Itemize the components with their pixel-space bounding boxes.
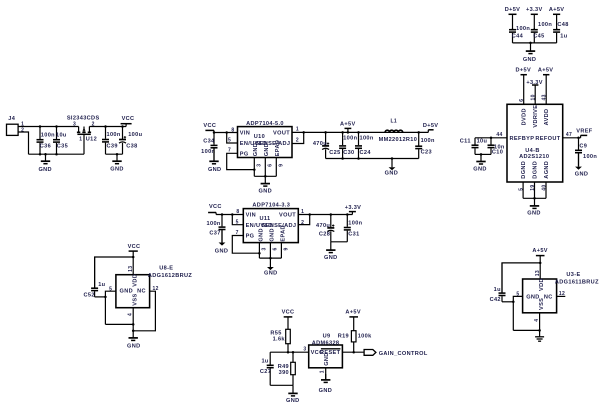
svg-text:DGND: DGND xyxy=(521,161,527,179)
transistor U12 SI2343CDS P-MOSFET xyxy=(77,127,91,155)
svg-text:GAIN_CONTROL: GAIN_CONTROL xyxy=(379,351,428,357)
svg-text:C44: C44 xyxy=(512,33,524,39)
svg-text:ADG1612BRUZ: ADG1612BRUZ xyxy=(148,273,192,279)
svg-text:2: 2 xyxy=(296,137,299,143)
svg-text:8: 8 xyxy=(231,127,234,133)
svg-text:A+5V: A+5V xyxy=(340,122,356,128)
svg-text:GND: GND xyxy=(38,167,51,173)
svg-text:AD2S1210: AD2S1210 xyxy=(519,154,549,160)
svg-text:R19: R19 xyxy=(338,334,349,340)
svg-text:C30: C30 xyxy=(343,150,354,156)
svg-text:100n: 100n xyxy=(41,133,55,139)
svg-text:C38: C38 xyxy=(126,144,137,150)
svg-text:ADM6328: ADM6328 xyxy=(312,341,340,347)
svg-text:VIN: VIN xyxy=(246,212,256,218)
svg-text:C34: C34 xyxy=(203,139,215,145)
resistor R55 1.6k xyxy=(286,329,291,343)
svg-text:100n: 100n xyxy=(583,154,597,160)
capacitor C11 xyxy=(474,138,476,145)
wire C42 to VSS net xyxy=(502,301,513,303)
wire branch to C42 xyxy=(502,263,540,293)
power flag VCC xyxy=(129,250,138,252)
ground xyxy=(530,43,532,51)
svg-text:C11: C11 xyxy=(460,139,471,145)
wire bottom gnd rail xyxy=(513,329,539,331)
svg-text:GND: GND xyxy=(385,171,398,177)
analog switch U8-E ADG1612BRUZ xyxy=(116,275,150,308)
ground xyxy=(578,153,580,166)
svg-text:10u: 10u xyxy=(56,133,67,139)
svg-text:6: 6 xyxy=(273,247,279,250)
svg-text:390: 390 xyxy=(279,370,289,376)
svg-text:GND: GND xyxy=(324,255,337,261)
svg-text:100n: 100n xyxy=(516,26,530,32)
capacitor C25 xyxy=(325,132,327,145)
svg-text:AGND: AGND xyxy=(544,161,550,179)
svg-text:AVDD: AVDD xyxy=(544,109,550,126)
svg-text:1: 1 xyxy=(320,370,326,373)
ground xyxy=(264,176,266,183)
svg-text:1: 1 xyxy=(296,126,299,132)
wire REFOUT to VREF xyxy=(563,137,581,139)
wire GND pin stubs xyxy=(253,158,255,177)
ground xyxy=(480,154,482,161)
power flag +3.3V xyxy=(532,84,538,86)
capacitor C39 xyxy=(105,127,107,139)
svg-text:40: 40 xyxy=(541,185,547,191)
capacitor C28 xyxy=(330,215,332,228)
svg-text:GND: GND xyxy=(264,270,277,276)
capacitor C9 xyxy=(578,138,580,150)
ground xyxy=(391,159,393,168)
svg-text:DGND: DGND xyxy=(533,161,539,179)
ground xyxy=(325,374,327,380)
wire SENSE/ADJ to VOUT xyxy=(298,215,309,225)
svg-text:SI2343CDS: SI2343CDS xyxy=(67,115,100,121)
wire NC pin 12 loop xyxy=(133,291,155,331)
svg-text:C25: C25 xyxy=(329,150,340,156)
regulator U11 ADP7104-3.3 xyxy=(243,209,298,243)
svg-text:GND: GND xyxy=(526,294,539,300)
wire cap gnd rail xyxy=(475,153,491,155)
svg-text:A+5V: A+5V xyxy=(345,310,361,316)
capacitor C45 xyxy=(533,28,535,29)
power flag D+5V xyxy=(509,13,517,15)
svg-text:ADP7104-3.3: ADP7104-3.3 xyxy=(252,203,290,209)
capacitor C34 xyxy=(213,133,215,145)
svg-text:470u: 470u xyxy=(316,223,330,229)
svg-text:U8-E: U8-E xyxy=(159,266,173,272)
svg-text:470u: 470u xyxy=(313,141,327,147)
svg-text:GND: GND xyxy=(215,249,228,255)
wire GND pin xyxy=(325,368,327,380)
wire GND pin 5 xyxy=(105,291,116,324)
svg-text:GND: GND xyxy=(523,57,536,63)
svg-text:GND: GND xyxy=(575,172,588,178)
wire VSS to ground xyxy=(132,308,134,338)
svg-text:C31: C31 xyxy=(348,231,359,237)
inductor L1 MM22012R10 xyxy=(385,130,403,132)
svg-text:GND: GND xyxy=(127,344,140,350)
power flag D+5V xyxy=(521,74,527,76)
svg-text:EPAD: EPAD xyxy=(280,225,286,242)
svg-text:3: 3 xyxy=(262,247,268,250)
svg-text:REFBYP: REFBYP xyxy=(510,136,535,142)
power flag VCC xyxy=(284,316,293,318)
svg-text:VIN: VIN xyxy=(240,130,250,136)
svg-text:VDRIVE: VDRIVE xyxy=(533,105,539,128)
wire branch to C52 xyxy=(95,257,134,288)
resistor R49 390 xyxy=(291,362,296,374)
svg-text:EPAD: EPAD xyxy=(275,140,281,157)
svg-text:VOUT: VOUT xyxy=(279,212,296,218)
svg-text:C37: C37 xyxy=(209,231,220,237)
svg-text:+3.3V: +3.3V xyxy=(345,205,362,211)
ground xyxy=(534,198,536,206)
svg-text:1u: 1u xyxy=(494,287,501,293)
capacitor C48 xyxy=(556,28,558,29)
analog switch U3-E ADG1611BRUZ xyxy=(523,279,557,313)
wire RESET to flag xyxy=(342,351,364,353)
svg-text:13: 13 xyxy=(535,270,541,276)
power flag A+5V xyxy=(553,13,560,15)
power flag VREF xyxy=(581,134,588,136)
wire J4 pin1 to Q drain xyxy=(18,126,79,128)
svg-text:VCC: VCC xyxy=(128,244,141,250)
svg-text:5: 5 xyxy=(109,287,112,293)
svg-text:3: 3 xyxy=(257,164,263,167)
svg-text:3: 3 xyxy=(303,347,306,353)
wire bottom rail xyxy=(270,384,293,386)
svg-text:VSS: VSS xyxy=(132,293,138,305)
svg-text:C35: C35 xyxy=(57,144,68,150)
svg-text:13: 13 xyxy=(128,266,134,272)
svg-text:GND: GND xyxy=(527,210,540,216)
svg-text:10: 10 xyxy=(531,94,537,100)
svg-text:1.6k: 1.6k xyxy=(273,337,286,343)
svg-text:1u: 1u xyxy=(98,282,105,288)
svg-text:1: 1 xyxy=(79,137,82,143)
power flag VCC xyxy=(121,123,132,125)
svg-text:C24: C24 xyxy=(360,150,372,156)
wire rail xyxy=(513,42,557,44)
svg-text:PG: PG xyxy=(246,234,255,240)
wire VOUT +3.3V rail xyxy=(298,214,352,216)
svg-text:100n: 100n xyxy=(360,135,374,141)
svg-text:9: 9 xyxy=(284,247,290,250)
svg-text:100n: 100n xyxy=(421,138,435,144)
svg-text:6: 6 xyxy=(268,164,274,167)
svg-text:D+5V: D+5V xyxy=(505,7,521,13)
svg-text:MM22012R10: MM22012R10 xyxy=(379,137,418,143)
svg-text:A+5V: A+5V xyxy=(549,7,565,13)
svg-text:U3-E: U3-E xyxy=(566,272,580,278)
svg-text:C42: C42 xyxy=(490,297,501,303)
resolver chip U4-B AD2S1210 xyxy=(507,104,563,182)
svg-text:4: 4 xyxy=(534,319,540,322)
svg-text:VOUT: VOUT xyxy=(273,130,290,136)
svg-text:SENSE/ADJ: SENSE/ADJ xyxy=(256,141,291,147)
capacitor C31 xyxy=(346,215,348,227)
supervisor U9 ADM6328 xyxy=(309,345,343,368)
capacitor C30 xyxy=(342,132,344,145)
power flag A+5V xyxy=(536,255,545,257)
svg-text:J4: J4 xyxy=(8,116,15,122)
capacitor C38 xyxy=(122,127,124,140)
capacitor C52 xyxy=(94,257,96,288)
svg-text:U9: U9 xyxy=(323,334,331,340)
wire GND pin stubs xyxy=(258,243,260,259)
ground xyxy=(539,336,541,338)
svg-text:GND: GND xyxy=(259,189,272,195)
svg-text:SENSE/ADJ: SENSE/ADJ xyxy=(262,223,297,229)
capacitor C10 xyxy=(490,138,492,145)
svg-text:100n: 100n xyxy=(343,135,357,141)
svg-text:C23: C23 xyxy=(421,149,432,155)
wire GND rail left xyxy=(29,153,85,155)
svg-text:GND: GND xyxy=(208,167,221,173)
svg-text:RESET: RESET xyxy=(320,350,341,356)
wire GND rail right xyxy=(106,153,123,155)
wire NC pin 12 stub xyxy=(557,295,566,297)
wire C52 to VSS net xyxy=(95,296,106,298)
svg-text:U11: U11 xyxy=(260,216,271,222)
net flag GAIN_CONTROL xyxy=(364,350,376,356)
svg-text:C39: C39 xyxy=(107,144,118,150)
svg-text:8: 8 xyxy=(236,209,239,215)
svg-text:100n: 100n xyxy=(201,149,215,155)
svg-text:100u: 100u xyxy=(128,132,142,138)
svg-text:C52: C52 xyxy=(83,293,94,299)
wire Q source to VCC xyxy=(89,126,126,128)
ground xyxy=(330,242,332,250)
capacitor C24 xyxy=(358,132,360,145)
svg-text:100n: 100n xyxy=(348,220,362,226)
svg-text:C48: C48 xyxy=(557,22,568,28)
wire EN/UVLO to VIN xyxy=(232,215,243,225)
svg-text:GND: GND xyxy=(269,228,275,241)
power flag A+5V xyxy=(345,127,352,129)
svg-text:10u: 10u xyxy=(477,139,488,145)
svg-text:GND: GND xyxy=(110,167,123,173)
ground xyxy=(116,154,118,161)
svg-text:6: 6 xyxy=(519,99,525,102)
svg-text:C27: C27 xyxy=(260,369,271,375)
svg-text:R55: R55 xyxy=(270,330,281,336)
wire left gnd rail xyxy=(105,323,133,325)
svg-text:VDD: VDD xyxy=(132,274,138,287)
svg-text:GND: GND xyxy=(253,143,259,156)
wire PG loop to GND pins xyxy=(232,236,259,254)
wire VOUT +5V rail xyxy=(292,131,428,133)
svg-text:5: 5 xyxy=(516,292,519,298)
svg-text:GND: GND xyxy=(286,398,299,404)
svg-text:D+5V: D+5V xyxy=(516,68,532,74)
svg-text:1u: 1u xyxy=(261,359,268,365)
svg-text:VDD: VDD xyxy=(539,278,545,291)
wire J4 pin2 down to GND rail xyxy=(18,132,28,154)
svg-text:100n: 100n xyxy=(107,132,121,138)
wire GND pin 5 xyxy=(513,296,522,330)
wire PG loop to GND pins xyxy=(227,153,255,169)
capacitor C37 xyxy=(221,215,223,227)
power flag VCC xyxy=(205,129,214,131)
svg-text:U10: U10 xyxy=(254,134,265,140)
wire node rail xyxy=(270,351,309,353)
svg-text:C28: C28 xyxy=(319,231,330,237)
svg-text:VREF: VREF xyxy=(576,128,593,134)
ground xyxy=(45,154,47,161)
wire SENSE/ADJ to VOUT xyxy=(292,132,304,143)
svg-text:GND: GND xyxy=(324,352,330,365)
wire REFBYP to caps xyxy=(475,137,507,139)
svg-text:VCC: VCC xyxy=(122,116,135,122)
svg-text:L1: L1 xyxy=(391,118,398,124)
capacitor C44 xyxy=(512,28,514,29)
ground xyxy=(292,385,294,393)
svg-text:U12: U12 xyxy=(86,137,97,143)
svg-text:VCC: VCC xyxy=(209,204,222,210)
wire DGND AGND stubs xyxy=(522,182,524,198)
resistor R19 100k xyxy=(351,331,356,342)
svg-text:PG: PG xyxy=(240,151,249,157)
wire bottom rail xyxy=(326,158,419,160)
svg-text:4: 4 xyxy=(127,313,133,316)
capacitor C42 xyxy=(501,263,503,293)
svg-text:GND: GND xyxy=(319,388,332,394)
svg-text:VSS: VSS xyxy=(539,298,545,310)
power flag D+5V xyxy=(428,129,433,131)
svg-text:1u: 1u xyxy=(560,33,567,39)
svg-text:C9: C9 xyxy=(579,144,587,150)
svg-text:C36: C36 xyxy=(40,144,51,150)
wire VCC to VIN xyxy=(214,132,238,134)
svg-text:REFOUT: REFOUT xyxy=(535,136,560,142)
power flag A+5V xyxy=(349,316,358,318)
svg-text:ADG1611BRUZ: ADG1611BRUZ xyxy=(555,280,599,286)
ground xyxy=(221,230,223,243)
svg-text:100n: 100n xyxy=(538,22,552,28)
svg-text:+3.3V: +3.3V xyxy=(526,7,543,13)
svg-text:100k: 100k xyxy=(358,334,372,340)
svg-text:D+5V: D+5V xyxy=(423,123,439,129)
power flag A+5V xyxy=(543,74,549,76)
wire VCC to VIN xyxy=(216,214,243,216)
power flag +3.3V xyxy=(349,211,356,213)
svg-text:9: 9 xyxy=(279,164,285,167)
wire VSS to ground xyxy=(539,313,541,337)
svg-text:GND: GND xyxy=(473,166,486,172)
power flag +3.3V xyxy=(531,13,538,15)
svg-text:19: 19 xyxy=(530,185,536,191)
svg-text:+3.3V: +3.3V xyxy=(526,80,543,86)
ground xyxy=(213,148,215,161)
power flag VCC xyxy=(208,212,216,214)
svg-text:VCC: VCC xyxy=(203,123,216,129)
svg-text:5: 5 xyxy=(518,188,524,191)
svg-text:C45: C45 xyxy=(533,33,544,39)
svg-text:GND: GND xyxy=(120,288,133,294)
capacitor C36 xyxy=(39,127,41,140)
regulator U10 ADP7104-5.0 xyxy=(238,127,293,158)
capacitor C35 xyxy=(56,127,58,140)
svg-text:DVDD: DVDD xyxy=(522,108,528,125)
wire bottom rail xyxy=(331,241,348,243)
capacitor C23 xyxy=(418,132,420,145)
ground xyxy=(269,258,271,267)
svg-text:NC: NC xyxy=(137,288,146,294)
svg-text:A+5V: A+5V xyxy=(532,248,548,254)
svg-text:3: 3 xyxy=(73,122,76,128)
capacitor C27 xyxy=(269,352,271,364)
svg-text:43: 43 xyxy=(542,94,548,100)
svg-text:A+5V: A+5V xyxy=(538,68,554,74)
svg-text:100n: 100n xyxy=(207,221,221,227)
svg-text:GND: GND xyxy=(264,143,270,156)
svg-text:ADP7104-5.0: ADP7104-5.0 xyxy=(246,121,284,127)
svg-text:VCC: VCC xyxy=(282,310,295,316)
svg-text:GND: GND xyxy=(258,228,264,241)
svg-text:C10: C10 xyxy=(492,150,503,156)
wire EN/UVLO to VIN xyxy=(227,133,238,144)
ground xyxy=(132,336,134,339)
